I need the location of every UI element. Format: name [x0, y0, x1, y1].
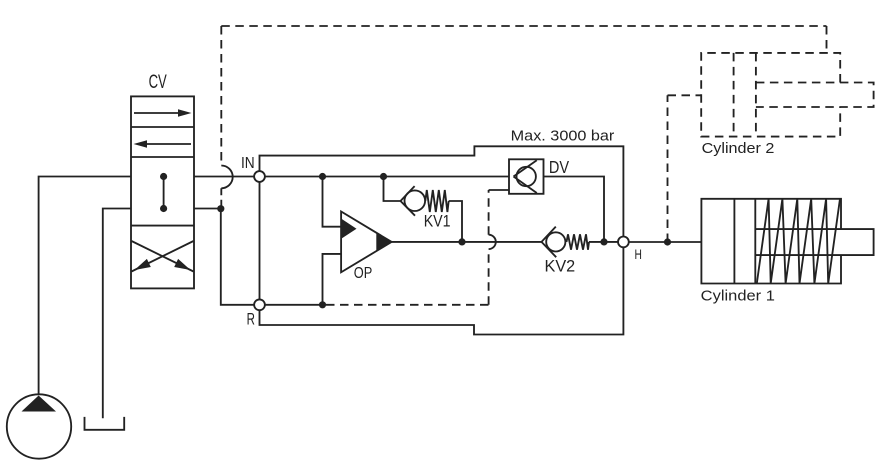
valve CV section divider 2: [131, 156, 194, 158]
pilot line (dashed) R line to DV: horizontal: [326, 304, 489, 306]
wire IN internal line to DV: [265, 176, 509, 178]
junction dot OP lower branch: [319, 301, 326, 308]
cylinder 2 rod (dashed): [756, 83, 874, 108]
junction dot OP upper branch: [319, 173, 326, 180]
svg-text:OP: OP: [354, 265, 373, 282]
wire OP output to KV2: [392, 241, 542, 243]
wire CV to IN port: [194, 176, 254, 178]
spring cylinder 1: [757, 199, 840, 284]
pilot line (dashed) vertical above hop: [488, 190, 490, 235]
svg-text:Cylinder 2: Cylinder 2: [702, 140, 775, 157]
op-amp OP pressure intensifier: [341, 212, 392, 273]
junction dot CV bottom port: [160, 205, 167, 212]
valve CV internal port link: [163, 176, 165, 209]
pilot line hop over OP output: [489, 235, 496, 249]
port IN circle: [254, 171, 265, 182]
junction dot KV1 branch: [380, 173, 387, 180]
cylinder 2 piston line 1: [733, 53, 735, 137]
port H circle: [618, 237, 629, 248]
manifold outline bottom: H down, left to step, to R: [260, 247, 624, 334]
pilot line hop over IN line: [221, 166, 232, 189]
pilot line (dashed) top left vertical: [220, 26, 222, 166]
cylinder 1 piston line 1: [733, 199, 735, 284]
spring KV1: [425, 190, 448, 212]
wire R internal line: [265, 304, 323, 306]
junction dot DV/KV2 output: [600, 238, 607, 245]
wire junction down to R port: [221, 209, 254, 305]
wire CV right port to junction: [194, 208, 221, 210]
manifold outline left: R up to IN: [259, 182, 261, 300]
wire tank to CV T-port: [103, 209, 131, 419]
junction dot right of CV: [217, 205, 224, 212]
wire pump to CV P-port: [39, 177, 131, 395]
wire KV1 output down to OP output: [449, 201, 462, 242]
junction dot KV1/OP output: [458, 238, 465, 245]
pilot line (dashed) below hop: [220, 188, 222, 206]
svg-text:Cylinder 1: Cylinder 1: [701, 287, 775, 304]
junction dot cylinder 2 branch: [664, 238, 671, 245]
wire pilot to DV box: [489, 189, 509, 191]
manifold outline top: IN up, right to step, to H: [260, 146, 624, 236]
port R circle: [254, 299, 265, 310]
wire KV2 output to H: [589, 241, 618, 243]
pilot line (dashed) top horizontal: [221, 25, 826, 27]
wire OP upper input: [323, 177, 342, 227]
valve CV crossed arrows (bottom section): [132, 241, 194, 272]
valve CV arrow left (second section): [134, 140, 192, 148]
svg-text:KV2: KV2: [545, 257, 576, 276]
check valve DV with box: [509, 159, 544, 194]
check valve KV1: [401, 186, 426, 216]
wire OP lower input: [323, 254, 342, 305]
svg-text:Max. 3000 bar: Max. 3000 bar: [511, 127, 615, 144]
wire H to cylinder 1: [629, 241, 702, 243]
svg-text:IN: IN: [241, 155, 255, 172]
cylinder 1 barrel: [701, 199, 841, 284]
cylinder 2 piston line 2: [755, 53, 757, 137]
cylinder 1 rod: [755, 229, 873, 255]
pilot line (dashed) up to cylinder 2: [667, 95, 669, 242]
wire DV output down to KV2 output: [544, 177, 605, 242]
cylinder 2 barrel (dashed): [701, 53, 840, 137]
spring KV2: [567, 234, 590, 249]
pilot line (dashed) into cylinder 2 left: [668, 94, 702, 96]
cylinder 1 piston line 2: [754, 199, 756, 284]
valve CV arrow right (top section): [134, 109, 192, 117]
valve CV body: [131, 96, 194, 288]
check valve KV2: [542, 227, 566, 258]
svg-text:DV: DV: [549, 157, 570, 177]
valve CV section divider 3: [131, 225, 194, 227]
junction dot CV top port: [160, 173, 167, 180]
pump P1: [7, 394, 71, 458]
valve CV section divider 1: [131, 126, 194, 128]
pilot line (dashed) vertical up to DV: [488, 249, 490, 305]
svg-text:KV1: KV1: [424, 212, 451, 231]
pilot line (dashed) right vertical to cylinder 2: [826, 26, 828, 53]
wire KV1 branch down and to seat: [384, 177, 401, 202]
tank T1: [85, 417, 125, 430]
svg-text:R: R: [247, 310, 255, 328]
svg-text:H: H: [635, 246, 642, 262]
svg-text:CV: CV: [149, 72, 167, 93]
